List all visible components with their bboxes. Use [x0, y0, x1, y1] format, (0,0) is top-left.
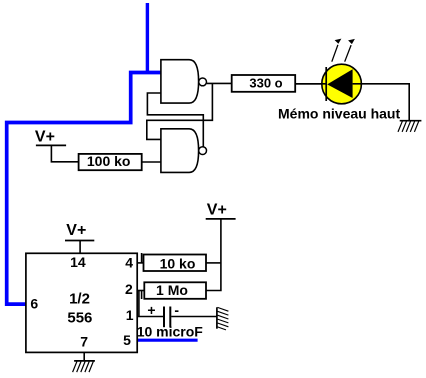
- svg-text:V+: V+: [66, 222, 86, 239]
- power symbol V+ (above 556 pin 14) bar: [65, 240, 94, 242]
- svg-text:V+: V+: [207, 202, 227, 219]
- svg-text:6: 6: [30, 295, 38, 311]
- wire: blue net (S input) from top edge down to NAND U1A input: [146, 3, 149, 73]
- svg-text:100 ko: 100 ko: [87, 153, 131, 169]
- wire: 556 pin 4 to resistor R3: [137, 262, 143, 264]
- svg-text:10 ko: 10 ko: [160, 256, 196, 272]
- wire: V+ to resistor R2: [51, 145, 78, 161]
- wire: R2 to NAND U1B lower input: [142, 161, 161, 163]
- svg-text:330 o: 330 o: [249, 76, 282, 91]
- wire: LED cathode to ground: [353, 84, 410, 121]
- wire: R1 to LED D1: [295, 83, 326, 85]
- ground symbol (pin 7): [73, 361, 95, 372]
- wire: NAND U1B output feedback to NAND U1A lower input: [147, 93, 203, 147]
- NAND U1B output bubble: [199, 147, 207, 155]
- wire: V+ rail down to R4: [206, 219, 221, 291]
- wire: 556 pin 1 to capacitor C1: [137, 316, 163, 318]
- svg-text:1 Mo: 1 Mo: [156, 282, 188, 298]
- resistor R3 body: [144, 255, 207, 272]
- wire: R3 to V+ rail: [206, 262, 221, 264]
- resistor R4 body: [144, 282, 206, 299]
- IC U2 556 body: [26, 253, 137, 352]
- svg-text:Mémo niveau haut: Mémo niveau haut: [278, 105, 400, 121]
- LED D1 body: [322, 64, 362, 104]
- wire: 556 pin 2 to resistor R4: [137, 290, 144, 292]
- svg-text:4: 4: [125, 255, 133, 271]
- stub below pin 2 wire: [141, 291, 143, 300]
- NAND gate U1A body: [161, 60, 199, 103]
- svg-text:556: 556: [67, 309, 92, 326]
- wire: blue net from NAND U1A input around left side to 556 pin 6: [7, 73, 161, 305]
- wire: 556 pin 7 to ground: [83, 352, 85, 361]
- wire: NAND U1A output feedback to NAND U1B upper input: [147, 83, 213, 139]
- svg-text:1/2: 1/2: [69, 290, 90, 307]
- svg-text:+: +: [147, 302, 155, 318]
- svg-text:-: -: [174, 302, 179, 318]
- NAND U1A output bubble: [199, 78, 207, 86]
- wire: blue stub on 556 pin 5: [137, 339, 197, 342]
- wire: R1 to LED anode overlay: [295, 83, 326, 85]
- LED D1 triangle: [327, 69, 352, 98]
- svg-text:V+: V+: [35, 129, 55, 146]
- svg-text:5: 5: [123, 332, 131, 348]
- resistor R2 body: [79, 154, 142, 170]
- power symbol V+ (right) bar: [206, 218, 236, 220]
- stub above pin 4 wire: [141, 253, 143, 263]
- wire: pin 2 to pin 1 connector: [138, 291, 140, 317]
- resistor R1 body: [232, 75, 296, 92]
- svg-text:1: 1: [126, 307, 134, 323]
- wire: C1 to ground: [171, 316, 217, 318]
- ground symbol (C1, rotated): [217, 307, 229, 330]
- svg-text:14: 14: [70, 254, 86, 270]
- LED D1 cathode bar: [325, 67, 327, 101]
- svg-text:7: 7: [80, 333, 88, 349]
- ground symbol (LED): [398, 121, 421, 132]
- capacitor C1 left plate: [163, 307, 165, 328]
- power symbol V+ (top left) bar: [36, 144, 66, 146]
- svg-text:2: 2: [125, 281, 133, 297]
- NAND gate U1B body: [161, 129, 199, 173]
- LED light arrow 2: [345, 45, 351, 62]
- wire: V+ to 556 pin 14: [79, 241, 81, 254]
- LED light arrow 1: [332, 45, 338, 62]
- capacitor C1 right plate: [169, 307, 171, 328]
- svg-text:10 microF: 10 microF: [137, 323, 204, 339]
- wire: NAND U1A output to resistor R1: [207, 82, 232, 84]
